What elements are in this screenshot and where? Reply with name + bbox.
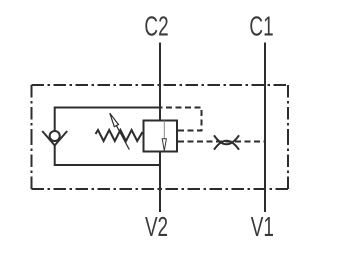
- svg-text:C2: C2: [144, 11, 168, 43]
- svg-text:V1: V1: [251, 211, 274, 243]
- svg-text:V2: V2: [145, 211, 168, 243]
- svg-text:C1: C1: [249, 11, 273, 43]
